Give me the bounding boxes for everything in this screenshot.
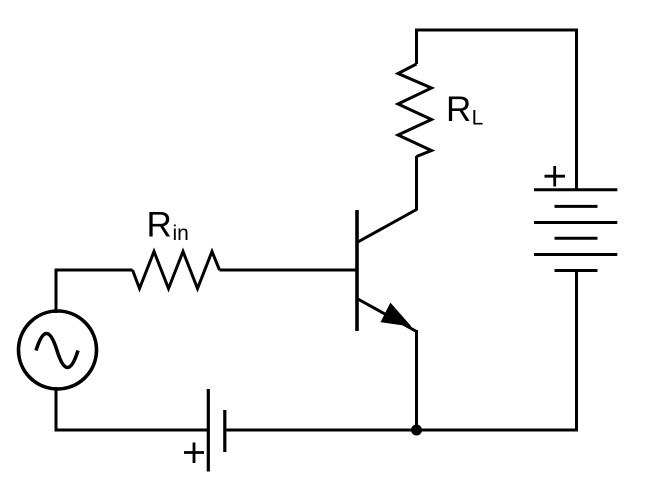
wire emitter lead down to junction — [415, 330, 418, 430]
wire AC source top to Rin — [56, 270, 133, 313]
wire right side bottom: battery B2 negative down and along bottom to junction — [227, 271, 577, 431]
svg-text:R: R — [446, 90, 471, 129]
label + (battery B1 positive) — [184, 443, 204, 464]
resistor RL — [398, 64, 432, 157]
resistor Rin — [133, 252, 220, 289]
svg-text:L: L — [472, 106, 484, 129]
transistor Q1 — [356, 210, 417, 332]
battery B1 (bottom) — [208, 389, 225, 472]
battery B2 (VCC, right side) — [534, 190, 617, 271]
AC source V1 — [19, 311, 97, 389]
junction node — [411, 425, 422, 436]
label + (battery B2 positive) — [545, 166, 566, 187]
wire bottom left: battery B1 to AC source — [56, 387, 207, 430]
wire base — [220, 269, 356, 272]
wire RL bottom lead to collector — [415, 156, 418, 211]
wire top rail: RL top lead, top horizontal, right vertical to battery — [417, 30, 577, 191]
svg-text:in: in — [173, 222, 189, 245]
svg-text:R: R — [147, 206, 172, 245]
